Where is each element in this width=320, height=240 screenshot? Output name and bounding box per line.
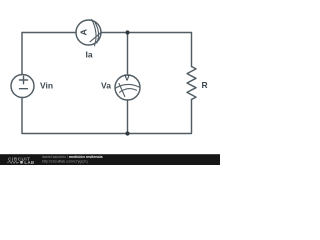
svg-text:Va: Va [101, 80, 111, 90]
svg-text:A: A [79, 29, 88, 36]
svg-text:V: V [124, 73, 130, 83]
svg-text:http://circuitlab.com/c7ygq7q: http://circuitlab.com/c7ygq7q [42, 159, 88, 163]
svg-text:LAB: LAB [24, 160, 34, 165]
svg-text:Vin: Vin [40, 81, 53, 91]
svg-text:Ia: Ia [86, 50, 93, 60]
svg-text:daniel.sanchez / medición resi: daniel.sanchez / medición resitencia [42, 155, 104, 159]
svg-text:R: R [202, 80, 208, 90]
